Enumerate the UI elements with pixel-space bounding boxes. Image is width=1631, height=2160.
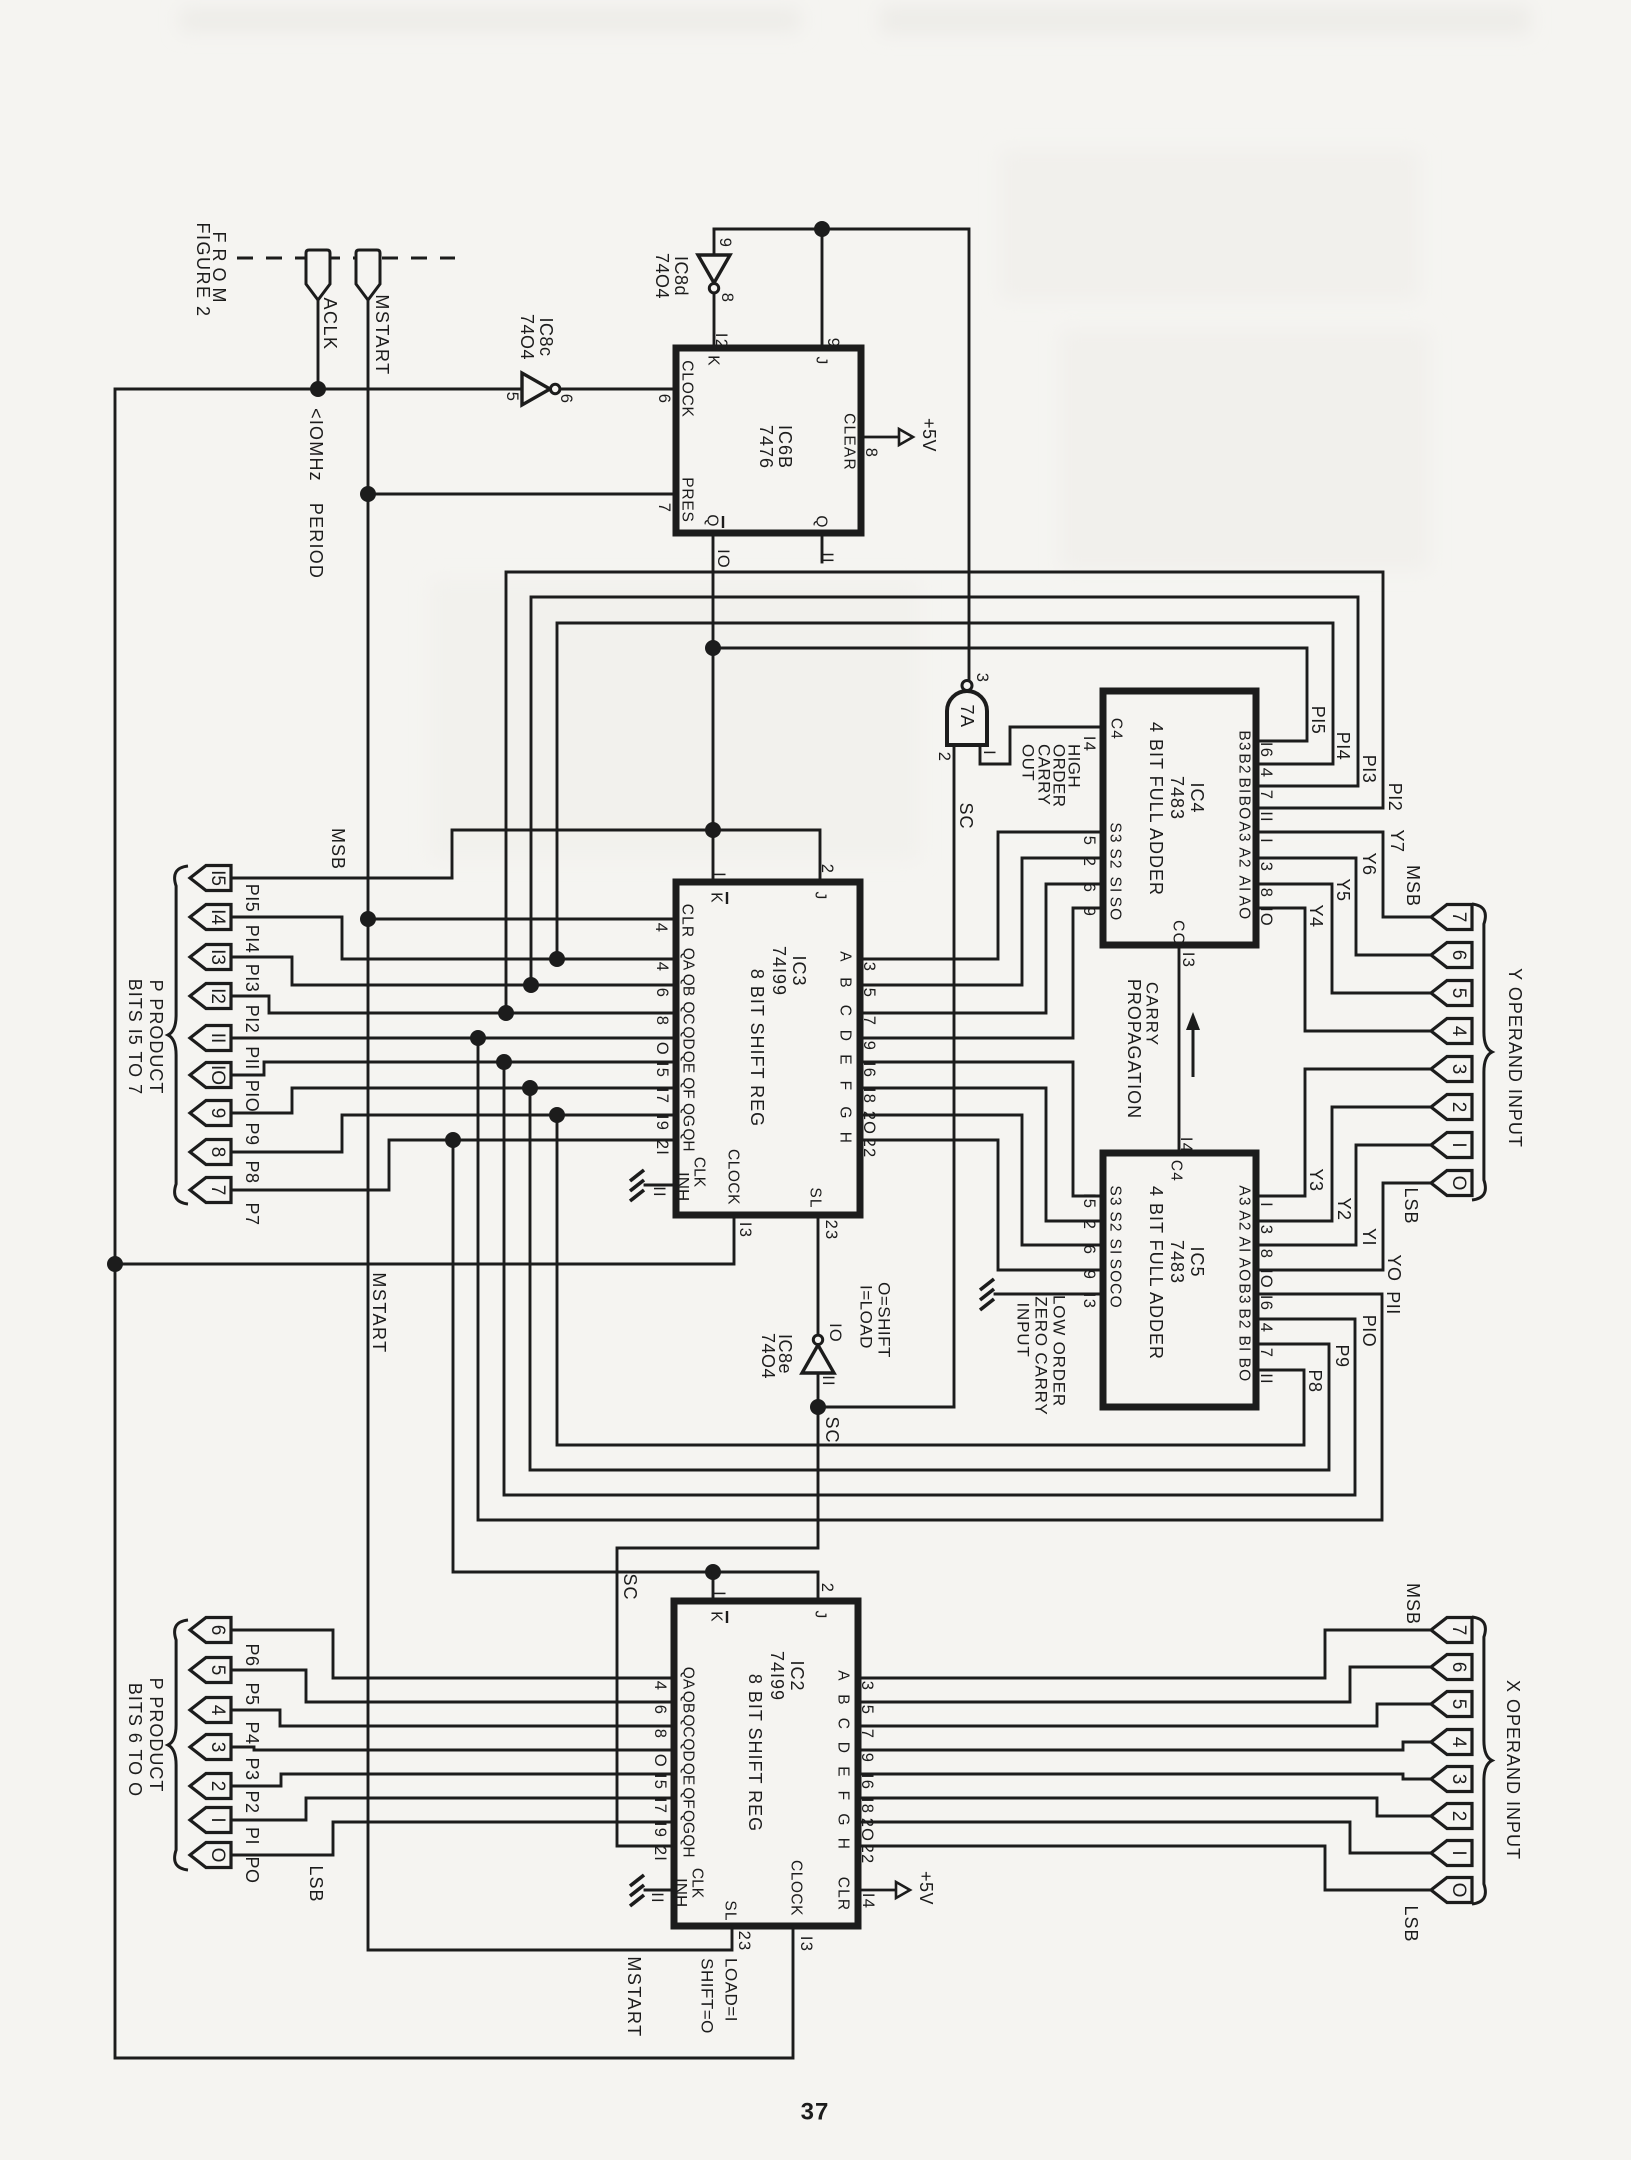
svg-text:7: 7 xyxy=(860,1016,878,1026)
svg-text:A3: A3 xyxy=(1236,821,1253,842)
wire IC8e in xyxy=(817,1373,820,1407)
svg-text:SC: SC xyxy=(620,1573,640,1600)
svg-text:2: 2 xyxy=(207,1781,228,1792)
wire QB-P5 xyxy=(230,1670,674,1702)
wire P15 to IC4 B3 xyxy=(713,648,1307,741)
power +5V IC2 CLR xyxy=(858,1889,896,1892)
svg-text:IO: IO xyxy=(714,549,732,569)
svg-text:P6: P6 xyxy=(242,1643,262,1666)
svg-text:6: 6 xyxy=(1448,1662,1469,1673)
svg-text:6: 6 xyxy=(655,394,673,404)
svg-text:QB: QB xyxy=(680,1691,697,1713)
terminal P6 low xyxy=(190,1618,231,1643)
wire SL IC3 xyxy=(817,1215,820,1335)
svg-text:I4: I4 xyxy=(859,1893,877,1909)
svg-text:CO: CO xyxy=(1170,920,1187,946)
svg-text:6: 6 xyxy=(207,1625,228,1636)
terminal X7 xyxy=(1431,1618,1472,1643)
wire A2-Y2 xyxy=(1256,1107,1431,1221)
svg-text:I: I xyxy=(1448,1850,1469,1855)
svg-text:IO: IO xyxy=(1257,1269,1275,1289)
svg-text:C: C xyxy=(835,1718,852,1730)
arrow carry propagation xyxy=(1192,1022,1195,1077)
svg-text:4: 4 xyxy=(1257,1323,1275,1333)
svg-text:74O4: 74O4 xyxy=(652,253,672,299)
brace P15-7 xyxy=(168,866,188,1204)
svg-text:PERIOD: PERIOD xyxy=(306,503,326,579)
svg-text:3: 3 xyxy=(973,673,991,683)
wire QD to IC5 B3 xyxy=(478,1038,1382,1520)
svg-text:I3: I3 xyxy=(1179,952,1197,968)
nand gate 7A xyxy=(947,691,987,745)
svg-text:I: I xyxy=(980,750,998,756)
svg-text:3: 3 xyxy=(1257,862,1275,872)
svg-text:9: 9 xyxy=(716,238,734,248)
inverter IC8c 7404 xyxy=(522,373,550,405)
svg-text:S2: S2 xyxy=(1107,848,1124,869)
svg-text:I3: I3 xyxy=(797,1936,815,1952)
svg-text:SHIFT=O: SHIFT=O xyxy=(698,1958,717,2034)
brace X operand xyxy=(1472,1617,1492,1904)
terminal Y3 xyxy=(1431,1057,1472,1082)
svg-text:INH: INH xyxy=(672,1878,691,1907)
svg-text:K: K xyxy=(708,892,725,904)
wire A1-Y1 xyxy=(1256,1145,1431,1245)
svg-text:7: 7 xyxy=(655,503,673,513)
svg-text:ACLK: ACLK xyxy=(320,297,340,350)
svg-text:+5V: +5V xyxy=(919,418,939,452)
wire F-X2 xyxy=(858,1798,1431,1816)
svg-text:F: F xyxy=(837,1081,854,1092)
svg-text:QE: QE xyxy=(680,1763,697,1785)
svg-text:SC: SC xyxy=(956,802,976,829)
wire QC to IC4 B0 xyxy=(506,572,1383,1013)
wire QF-P9 xyxy=(230,1088,676,1113)
svg-text:PI3: PI3 xyxy=(1359,755,1379,784)
svg-text:SL: SL xyxy=(807,1187,824,1208)
wire MSTART stem xyxy=(368,300,732,1950)
wire QF-P1 xyxy=(230,1798,674,1820)
svg-text:3: 3 xyxy=(1448,1774,1469,1785)
junction QE xyxy=(496,1054,512,1070)
svg-text:PII: PII xyxy=(1383,1291,1403,1315)
svg-text:P9: P9 xyxy=(242,1122,262,1145)
svg-text:ZERO CARRY: ZERO CARRY xyxy=(1032,1296,1051,1415)
terminal P10 xyxy=(190,1063,231,1088)
svg-text:9: 9 xyxy=(207,1108,228,1119)
svg-text:QA: QA xyxy=(680,1667,697,1690)
svg-text:4: 4 xyxy=(651,1681,669,1691)
svg-text:BITS 6 TO O: BITS 6 TO O xyxy=(125,1683,145,1797)
svg-text:6: 6 xyxy=(557,394,575,404)
svg-text:I: I xyxy=(710,872,728,878)
svg-text:PI: PI xyxy=(242,1827,262,1845)
wire ACLK stem xyxy=(317,300,320,389)
wire S2-B xyxy=(860,858,1103,985)
svg-text:I: I xyxy=(1448,1142,1469,1147)
wire PRES xyxy=(368,493,676,496)
svg-text:8 BIT SHIFT REG: 8 BIT SHIFT REG xyxy=(745,1674,765,1832)
terminal P9 xyxy=(190,1101,231,1126)
svg-text:2: 2 xyxy=(818,864,836,874)
svg-text:J: J xyxy=(812,892,829,901)
svg-text:IC6B: IC6B xyxy=(775,425,795,469)
svg-text:D: D xyxy=(835,1742,852,1754)
junction Qbar-P15 xyxy=(705,822,721,838)
terminal ACLK xyxy=(306,250,330,300)
svg-text:BO: BO xyxy=(1236,796,1253,821)
junction ACLK-IC3CLK xyxy=(107,1256,123,1272)
svg-text:P7: P7 xyxy=(242,1202,262,1225)
terminal P14 xyxy=(190,905,231,930)
inverter IC8e 7404 xyxy=(802,1345,834,1373)
svg-text:9: 9 xyxy=(860,1041,878,1051)
wire QA to IC4 B2 xyxy=(557,623,1333,959)
svg-text:IC8c: IC8c xyxy=(536,317,556,356)
brace P6-0 xyxy=(168,1620,188,1870)
wire NAND in1 C4 xyxy=(980,727,1103,764)
svg-text:5: 5 xyxy=(1448,1699,1469,1710)
svg-text:SC: SC xyxy=(822,1416,842,1443)
svg-text:3: 3 xyxy=(858,1681,876,1691)
svg-text:3: 3 xyxy=(207,1742,228,1753)
svg-text:QE: QE xyxy=(680,1051,697,1073)
wire J IC2 link xyxy=(713,1571,818,1574)
wire A3-Y7 xyxy=(1256,832,1431,917)
terminal Y7 xyxy=(1431,905,1472,930)
svg-text:P2: P2 xyxy=(242,1790,262,1813)
svg-text:8: 8 xyxy=(653,1016,671,1026)
svg-text:9: 9 xyxy=(1080,1270,1098,1280)
svg-text:I5: I5 xyxy=(1080,1193,1098,1209)
svg-text:INH: INH xyxy=(674,1172,693,1201)
svg-text:Y5: Y5 xyxy=(1333,878,1353,901)
svg-text:P8: P8 xyxy=(1305,1369,1325,1392)
svg-text:II: II xyxy=(207,1033,228,1044)
shift register IC2 74199 xyxy=(674,1601,858,1926)
wire S0-D xyxy=(860,908,1103,1038)
svg-text:Y3: Y3 xyxy=(1306,1168,1326,1191)
svg-text:P PRODUCT: P PRODUCT xyxy=(146,1678,166,1793)
svg-text:2I: 2I xyxy=(651,1846,669,1862)
svg-text:2: 2 xyxy=(1080,857,1098,867)
svg-text:23: 23 xyxy=(822,1220,840,1241)
svg-text:7: 7 xyxy=(1448,1625,1469,1636)
wire QC-P12 xyxy=(230,996,676,1013)
svg-text:BO: BO xyxy=(1236,1358,1253,1383)
terminal X3 xyxy=(1431,1767,1472,1792)
svg-text:I4: I4 xyxy=(1080,736,1098,752)
svg-text:2: 2 xyxy=(1448,1102,1469,1113)
svg-text:P PRODUCT: P PRODUCT xyxy=(146,980,166,1095)
wire QE-P10 xyxy=(230,1062,676,1075)
svg-text:8: 8 xyxy=(1257,888,1275,898)
svg-text:I6: I6 xyxy=(860,1062,878,1078)
wire QH to IC2 JK xyxy=(453,1140,818,1601)
svg-text:PI4: PI4 xyxy=(1333,732,1353,761)
svg-text:LSB: LSB xyxy=(1401,1905,1421,1942)
terminal Y6 xyxy=(1431,943,1472,968)
junction QH xyxy=(445,1132,461,1148)
svg-text:I8: I8 xyxy=(860,1088,878,1104)
svg-text:Y6: Y6 xyxy=(1359,852,1379,875)
svg-text:PIO: PIO xyxy=(242,1080,262,1113)
wire SC down xyxy=(617,1407,818,1846)
adder IC5 7483 xyxy=(1103,1153,1256,1407)
svg-text:CLOCK: CLOCK xyxy=(679,360,696,417)
svg-text:CLR: CLR xyxy=(835,1877,852,1912)
flip-flop IC6B 7476 xyxy=(676,348,861,533)
terminal X6 xyxy=(1431,1655,1472,1680)
svg-text:I: I xyxy=(1257,1202,1275,1208)
svg-text:C4: C4 xyxy=(1108,718,1125,740)
junction QG xyxy=(549,1107,565,1123)
svg-text:7: 7 xyxy=(207,1185,228,1196)
terminal Y4 xyxy=(1431,1019,1472,1044)
svg-text:MSTART: MSTART xyxy=(372,294,392,375)
svg-text:7: 7 xyxy=(1448,912,1469,923)
junction MSTART-PRES xyxy=(360,486,376,502)
svg-text:LSB: LSB xyxy=(306,1865,326,1902)
wire QD-P3 xyxy=(230,1747,674,1750)
terminal Y0 xyxy=(1431,1171,1472,1196)
wire IC5 S1-G xyxy=(860,1115,1103,1245)
wire QG-P8 xyxy=(230,1115,676,1152)
wire QB-P13 xyxy=(230,957,676,985)
svg-text:SI: SI xyxy=(1107,1238,1124,1255)
svg-text:Y OPERAND INPUT: Y OPERAND INPUT xyxy=(1505,968,1525,1148)
adder IC4 7483 xyxy=(1103,691,1256,945)
svg-text:X OPERAND INPUT: X OPERAND INPUT xyxy=(1503,1680,1523,1860)
svg-text:O: O xyxy=(207,1848,228,1863)
svg-text:QH: QH xyxy=(680,1834,697,1857)
svg-text:PO: PO xyxy=(242,1856,262,1883)
wire QG-P0 xyxy=(230,1822,674,1855)
svg-text:MSB: MSB xyxy=(1403,1583,1423,1625)
svg-text:I3: I3 xyxy=(207,949,228,965)
svg-text:QD: QD xyxy=(680,1738,697,1761)
svg-text:I5: I5 xyxy=(1080,830,1098,846)
svg-text:IO: IO xyxy=(1257,907,1275,927)
terminal X1 xyxy=(1431,1841,1472,1866)
svg-text:2I: 2I xyxy=(653,1140,671,1156)
junction QH-Kbar IC2 xyxy=(705,1564,721,1580)
svg-text:9: 9 xyxy=(1080,907,1098,917)
svg-text:S2: S2 xyxy=(1107,1211,1124,1232)
wire CO ground xyxy=(995,1293,1103,1296)
svg-text:SL: SL xyxy=(722,1900,739,1921)
svg-text:8: 8 xyxy=(718,293,736,303)
wire QD-P11 xyxy=(230,1037,676,1040)
svg-text:AI: AI xyxy=(1236,875,1253,892)
svg-text:I3: I3 xyxy=(736,1222,754,1238)
svg-text:E: E xyxy=(835,1766,852,1778)
svg-text:<IOMHz: <IOMHz xyxy=(306,408,326,482)
svg-text:23: 23 xyxy=(735,1931,753,1952)
wire IC5 S2-F xyxy=(860,1088,1103,1221)
svg-text:C: C xyxy=(837,1005,854,1017)
svg-text:IC3: IC3 xyxy=(789,955,809,986)
svg-text:4: 4 xyxy=(207,1705,228,1716)
svg-text:AO: AO xyxy=(1236,1258,1253,1283)
svg-text:O=SHIFT: O=SHIFT xyxy=(875,1282,894,1358)
svg-text:IO: IO xyxy=(207,1065,228,1085)
terminal P0 low xyxy=(190,1843,231,1868)
dashed boundary xyxy=(237,257,455,260)
wire QE to IC5 B2 xyxy=(504,1062,1355,1495)
wire C-X5 xyxy=(858,1704,1431,1726)
ground IC3 CLK INH xyxy=(630,1170,644,1181)
svg-text:Q: Q xyxy=(813,515,830,528)
svg-text:J: J xyxy=(813,357,830,366)
svg-text:E: E xyxy=(837,1054,854,1066)
svg-text:6: 6 xyxy=(1080,883,1098,893)
svg-text:K: K xyxy=(708,1611,725,1623)
svg-text:K: K xyxy=(705,355,722,367)
svg-text:I4: I4 xyxy=(207,909,228,925)
svg-text:8 BIT SHIFT REG: 8 BIT SHIFT REG xyxy=(747,969,767,1127)
wire G-X1 xyxy=(858,1822,1431,1853)
wire carry xyxy=(1178,945,1181,1153)
svg-text:P8: P8 xyxy=(242,1160,262,1183)
svg-text:CLOCK: CLOCK xyxy=(725,1149,742,1205)
svg-text:C4: C4 xyxy=(1168,1160,1185,1182)
svg-text:CLOCK: CLOCK xyxy=(788,1860,805,1916)
wire J net xyxy=(714,229,969,682)
svg-text:QD: QD xyxy=(680,1026,697,1049)
svg-text:QF: QF xyxy=(680,1787,697,1809)
svg-text:S3: S3 xyxy=(1107,1185,1124,1206)
junction Qbar-B3 xyxy=(705,640,721,656)
power +5V FF CLEAR xyxy=(861,436,899,439)
svg-text:6: 6 xyxy=(1448,950,1469,961)
svg-text:G: G xyxy=(835,1813,852,1826)
svg-text:LOW ORDER: LOW ORDER xyxy=(1050,1295,1069,1407)
svg-text:II: II xyxy=(650,1186,668,1198)
svg-text:MSB: MSB xyxy=(328,828,348,870)
svg-text:+5V: +5V xyxy=(916,1871,936,1905)
svg-text:BI: BI xyxy=(1236,777,1253,794)
svg-text:IC5: IC5 xyxy=(1187,1246,1207,1277)
svg-text:5: 5 xyxy=(207,1665,228,1676)
svg-text:I7: I7 xyxy=(653,1088,671,1104)
wire ACLK bus xyxy=(115,389,793,2058)
svg-text:QC: QC xyxy=(680,1001,697,1024)
svg-text:IC4: IC4 xyxy=(1187,782,1207,813)
wire P15 branch xyxy=(452,830,820,882)
svg-text:S3: S3 xyxy=(1107,822,1124,843)
wire IC3 CLR xyxy=(368,918,676,921)
svg-text:BITS I5 TO 7: BITS I5 TO 7 xyxy=(125,979,145,1095)
svg-text:Q: Q xyxy=(704,514,721,527)
terminal P7 xyxy=(190,1178,231,1203)
svg-text:P3: P3 xyxy=(242,1757,262,1780)
svg-text:I2: I2 xyxy=(207,988,228,1004)
terminal Y1 xyxy=(1431,1133,1472,1158)
svg-text:CLEAR: CLEAR xyxy=(841,413,858,471)
terminal X2 xyxy=(1431,1804,1472,1829)
terminal MSTART xyxy=(356,250,380,300)
svg-text:QF: QF xyxy=(680,1077,697,1099)
svg-text:SI: SI xyxy=(1107,876,1124,893)
svg-text:Y2: Y2 xyxy=(1334,1197,1354,1220)
svg-text:37: 37 xyxy=(801,2099,830,2126)
svg-text:Y7: Y7 xyxy=(1387,829,1407,852)
svg-text:LSB: LSB xyxy=(1401,1187,1421,1224)
svg-text:I6: I6 xyxy=(858,1774,876,1790)
svg-text:QG: QG xyxy=(680,1103,697,1127)
svg-text:A: A xyxy=(837,951,854,963)
svg-text:QC: QC xyxy=(680,1714,697,1737)
terminal P4 low xyxy=(190,1698,231,1723)
svg-text:I: I xyxy=(207,1817,228,1822)
svg-text:6: 6 xyxy=(653,988,671,998)
wire E-X3 xyxy=(858,1774,1431,1779)
wire Kbar IC2 xyxy=(712,1572,715,1601)
svg-text:4 BIT FULL ADDER: 4 BIT FULL ADDER xyxy=(1146,1186,1166,1360)
svg-text:8: 8 xyxy=(862,448,880,458)
svg-text:G: G xyxy=(837,1106,854,1119)
wire A0-Y0 xyxy=(1256,1183,1431,1270)
svg-text:I4: I4 xyxy=(652,917,670,933)
svg-text:I6: I6 xyxy=(1257,1295,1275,1311)
svg-text:B2: B2 xyxy=(1236,753,1253,774)
svg-text:PI4: PI4 xyxy=(242,925,262,954)
svg-text:7: 7 xyxy=(1257,790,1275,800)
wire QA-P14 xyxy=(230,917,676,959)
svg-text:INPUT: INPUT xyxy=(1014,1303,1033,1358)
svg-text:B2: B2 xyxy=(1236,1308,1253,1329)
wire A1-Y5 xyxy=(1256,884,1431,993)
terminal P13 xyxy=(190,945,231,970)
svg-text:7476: 7476 xyxy=(756,425,776,469)
svg-text:I: I xyxy=(1257,838,1275,844)
svg-text:PIO: PIO xyxy=(1359,1315,1379,1348)
svg-text:B3: B3 xyxy=(1236,730,1253,751)
svg-text:74I99: 74I99 xyxy=(769,946,789,996)
svg-text:MSB: MSB xyxy=(1403,865,1423,907)
svg-text:PI2: PI2 xyxy=(1385,783,1405,812)
svg-text:OUT: OUT xyxy=(1019,744,1038,781)
wire S3-A xyxy=(860,832,1103,959)
wire A-X7 xyxy=(858,1630,1431,1678)
svg-text:7483: 7483 xyxy=(1167,1240,1187,1284)
svg-text:J: J xyxy=(812,1611,829,1620)
svg-text:I5: I5 xyxy=(207,870,228,886)
junction QA xyxy=(549,951,565,967)
wire IC8d out to K xyxy=(713,293,716,348)
wire J pin xyxy=(821,229,824,348)
svg-text:QA: QA xyxy=(680,948,697,971)
terminal P3 low xyxy=(190,1735,231,1760)
svg-text:PRES: PRES xyxy=(679,477,696,522)
wire CLKINH IC3 xyxy=(645,1184,676,1187)
wire IC5 S0-H xyxy=(860,1140,1103,1270)
svg-text:A: A xyxy=(835,1670,852,1682)
svg-text:D: D xyxy=(837,1030,854,1042)
svg-text:PII: PII xyxy=(242,1046,262,1070)
svg-text:74O4: 74O4 xyxy=(517,314,537,360)
svg-text:I7: I7 xyxy=(651,1798,669,1814)
svg-text:3: 3 xyxy=(1257,1225,1275,1235)
svg-text:II: II xyxy=(1257,1373,1275,1385)
svg-text:Y4: Y4 xyxy=(1306,904,1326,927)
svg-text:4: 4 xyxy=(1448,1026,1469,1037)
ground low order carry xyxy=(980,1279,994,1290)
svg-text:I9: I9 xyxy=(653,1115,671,1131)
wire IC8c out xyxy=(560,388,676,391)
svg-text:9: 9 xyxy=(824,338,842,348)
